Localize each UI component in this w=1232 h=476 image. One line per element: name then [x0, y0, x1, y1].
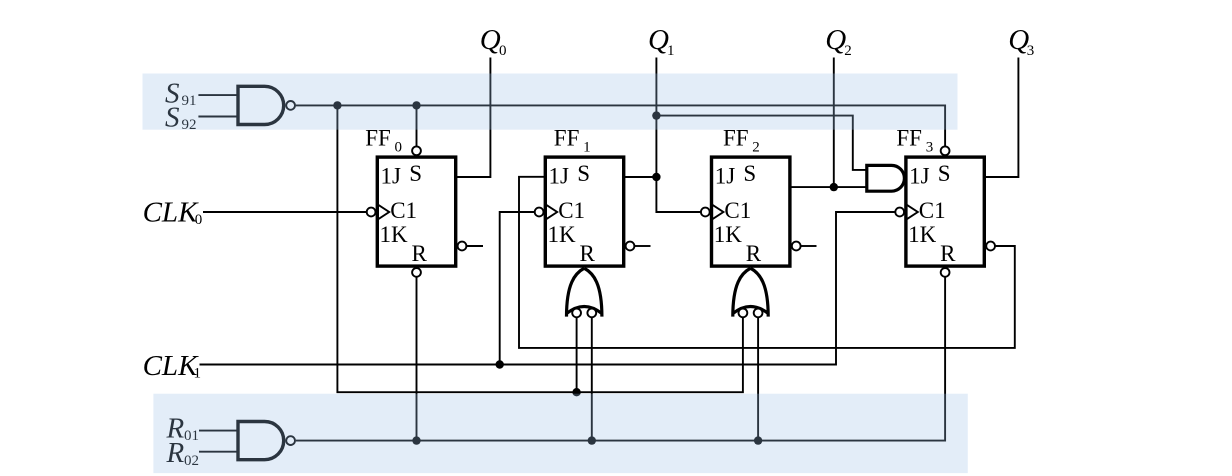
svg-text:S: S	[409, 161, 422, 186]
svg-text:S: S	[577, 161, 590, 186]
svg-text:CLK: CLK	[143, 196, 199, 228]
svg-text:1: 1	[667, 43, 675, 59]
svg-text:1K: 1K	[548, 222, 577, 247]
svg-text:R: R	[580, 241, 596, 266]
svg-text:1: 1	[194, 366, 202, 382]
svg-text:1K: 1K	[714, 222, 743, 247]
svg-text:R: R	[412, 241, 428, 266]
svg-text:3: 3	[926, 139, 934, 155]
svg-text:1J: 1J	[715, 163, 736, 188]
svg-text:1K: 1K	[380, 222, 409, 247]
svg-text:1J: 1J	[381, 163, 402, 188]
svg-text:CLK: CLK	[143, 350, 199, 382]
svg-text:R: R	[746, 241, 762, 266]
svg-text:1J: 1J	[909, 163, 930, 188]
svg-text:C1: C1	[919, 198, 946, 223]
svg-text:S: S	[743, 161, 756, 186]
svg-text:0: 0	[499, 43, 507, 59]
svg-text:C1: C1	[724, 198, 751, 223]
svg-text:1K: 1K	[908, 222, 937, 247]
svg-text:Q: Q	[648, 24, 669, 56]
svg-text:3: 3	[1027, 43, 1035, 59]
svg-text:Q: Q	[825, 24, 846, 56]
svg-text:1J: 1J	[549, 163, 570, 188]
svg-text:Q: Q	[480, 24, 501, 56]
svg-text:C1: C1	[390, 198, 417, 223]
svg-text:0: 0	[195, 212, 203, 228]
svg-text:R: R	[940, 241, 956, 266]
svg-text:1: 1	[583, 139, 591, 155]
svg-text:0: 0	[395, 139, 403, 155]
svg-text:2: 2	[844, 43, 852, 59]
svg-text:S: S	[938, 161, 951, 186]
svg-text:2: 2	[752, 139, 760, 155]
svg-text:C1: C1	[558, 198, 585, 223]
